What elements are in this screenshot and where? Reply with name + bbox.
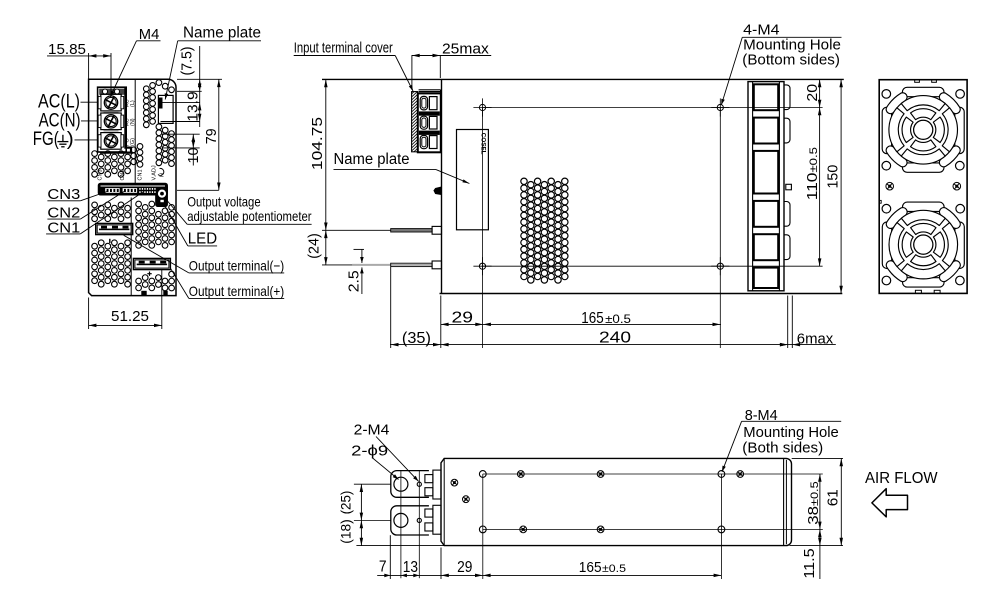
- leader potentiometer: [165, 198, 188, 225]
- terminal screw AC(L): [101, 94, 121, 111]
- svg-text:51.25: 51.25: [111, 309, 149, 325]
- svg-text:): ): [67, 129, 74, 150]
- svg-text:6max: 6max: [797, 331, 834, 347]
- svg-text:10: 10: [186, 148, 202, 164]
- svg-text:AC(N): AC(N): [39, 110, 81, 131]
- svg-text:(24): (24): [307, 233, 323, 259]
- svg-text:Output terminal(+): Output terminal(+): [189, 283, 284, 299]
- svg-text:110±0.5: 110±0.5: [805, 147, 821, 200]
- svg-text:(35): (35): [402, 330, 431, 347]
- end view top notches: [915, 80, 920, 83]
- hole row line top: [483, 107, 823, 109]
- svg-text:79: 79: [204, 128, 220, 144]
- leader Output terminal minus: [124, 235, 189, 273]
- fan guard outer straight slots: [903, 202, 945, 211]
- output terminal minus block: [96, 223, 133, 234]
- leader AC(N): [81, 120, 98, 122]
- leader M4: [110, 41, 136, 97]
- leader AC(L): [81, 101, 99, 103]
- side view mounting hole top-right: [717, 104, 723, 110]
- side view mounting hole bottom-left: [479, 263, 485, 269]
- svg-text:Mounting Hole: Mounting Hole: [743, 424, 839, 441]
- end view bottom tabs: [915, 290, 921, 293]
- svg-text:Name plate: Name plate: [183, 25, 261, 42]
- leader 4-M4: [721, 37, 742, 105]
- output stud upper (side): [391, 229, 432, 232]
- end view middle screws: [886, 182, 894, 190]
- leader CN1: [80, 192, 143, 234]
- front vent holes cluster E (right middle): [136, 201, 175, 248]
- svg-text:Output terminal(−): Output terminal(−): [189, 257, 284, 273]
- output stud lower (side): [352, 264, 432, 266]
- front vent holes cluster C (below CN strip left): [92, 202, 131, 222]
- side view left edge: [441, 79, 443, 293]
- potentiometer side view mark: [434, 187, 442, 195]
- leader Output terminal plus: [171, 268, 189, 298]
- svg-text:165: 165: [581, 310, 603, 327]
- fan guard outer straight slots: [902, 87, 944, 96]
- front panel vertical seam lower: [130, 198, 132, 296]
- leader FG: [75, 139, 99, 141]
- svg-text:(18): (18): [339, 519, 354, 543]
- svg-text:(G): (G): [130, 138, 136, 146]
- end view panel outline: [879, 80, 967, 294]
- bottom mounting holes 8-M4: [479, 471, 486, 478]
- LED lamp: [160, 199, 164, 202]
- side view bottom edge: [440, 293, 843, 295]
- front vent holes cluster A (upper right): [131, 80, 175, 167]
- side view top edge: [322, 78, 844, 80]
- svg-text:7: 7: [379, 559, 387, 576]
- svg-text:(25): (25): [339, 491, 354, 515]
- CN1 connector pins: [139, 188, 140, 190]
- front vent holes cluster F (bottom right): [136, 271, 175, 291]
- side view mounting hole bottom-right: [717, 263, 723, 269]
- hole row line bottom: [483, 265, 823, 267]
- svg-text:±0.5: ±0.5: [602, 563, 626, 575]
- end view left edge notch: [879, 200, 881, 203]
- bottom phillips screws: [517, 471, 524, 478]
- svg-text:V.ADJ: V.ADJ: [152, 165, 158, 180]
- tab 2 hole M4: [417, 518, 421, 522]
- svg-text:150: 150: [825, 165, 841, 189]
- front name plate: [158, 95, 173, 123]
- side name plate: [457, 130, 489, 230]
- bottom mounting tab 2: [391, 506, 429, 535]
- input terminal block TB1: [98, 87, 127, 152]
- svg-text:CN2: CN2: [120, 169, 126, 180]
- fan connector nub: [786, 184, 792, 190]
- hole column line right: [719, 108, 721, 349]
- leader 2-phi9: [372, 458, 399, 480]
- side view mounting hole top-left: [479, 104, 485, 110]
- svg-text:AIR FLOW: AIR FLOW: [865, 470, 938, 487]
- svg-text:61: 61: [825, 489, 841, 506]
- fan hub circle: [914, 120, 933, 139]
- front panel vertical seam upper: [134, 79, 136, 184]
- fan guard inner ring slots: [933, 117, 944, 142]
- fan guard middle ring slots: [942, 223, 957, 267]
- output voltage potentiometer: [157, 189, 166, 198]
- svg-text:29: 29: [452, 309, 474, 326]
- connector strip CN3 CN2 CN1: [98, 183, 167, 195]
- input terminal cover plates: [419, 89, 441, 91]
- air flow arrow: [872, 489, 908, 517]
- svg-text:(N): (N): [130, 118, 136, 126]
- fan guard middle ring slots: [942, 108, 957, 152]
- svg-text:COSEL: COSEL: [479, 133, 486, 155]
- connector strip pot housing: [156, 185, 168, 206]
- svg-text:(Bottom sides): (Bottom sides): [742, 51, 840, 68]
- side vent holes cluster: [521, 178, 568, 283]
- fan mounting corner holes: [882, 204, 891, 213]
- ground symbol: [62, 135, 64, 142]
- input terminal stack (side): [418, 93, 441, 152]
- fan assembly side view: [748, 82, 784, 291]
- svg-text:2-M4: 2-M4: [354, 421, 390, 438]
- svg-text:CN3: CN3: [98, 169, 104, 180]
- fan mounting corner holes: [882, 90, 891, 99]
- svg-text:Input terminal cover: Input terminal cover: [294, 39, 393, 56]
- svg-text:FG(: FG(: [33, 129, 60, 150]
- svg-text:29: 29: [457, 559, 472, 576]
- svg-text:LED: LED: [188, 231, 217, 248]
- fan guard inner ring slots: [933, 232, 944, 257]
- front vent holes cluster D (lower left): [92, 240, 131, 287]
- hole column line left: [482, 108, 484, 349]
- leader Name plate (front): [165, 41, 178, 100]
- svg-text:(7.5): (7.5): [180, 47, 196, 76]
- svg-text:Name plate: Name plate: [334, 151, 410, 168]
- tab 1 hole M4: [417, 482, 421, 486]
- leader Input terminal cover: [395, 56, 413, 92]
- svg-text:2.5: 2.5: [346, 270, 362, 292]
- bottom view right end seam: [783, 459, 785, 545]
- svg-text:adjustable potentiometer: adjustable potentiometer: [187, 208, 312, 224]
- tab 1 hole phi9: [394, 477, 408, 491]
- svg-text:Output voltage: Output voltage: [187, 194, 261, 210]
- bottom view body outline: [441, 458, 792, 545]
- svg-text:CN1: CN1: [138, 169, 144, 180]
- minus polarity mark: [109, 239, 111, 243]
- bottom view screw rows: [483, 473, 823, 475]
- terminal block bottom step: [100, 87, 131, 152]
- leader 8-M4: [722, 421, 742, 472]
- input terminal cover hatched block: [412, 92, 418, 152]
- svg-text:(Both sides): (Both sides): [742, 440, 823, 457]
- fan hub circle: [914, 235, 933, 254]
- output terminal plus block: [133, 258, 170, 269]
- leader CN3: [80, 192, 107, 201]
- CN3 connector slot: [105, 188, 120, 193]
- plus polarity mark: [147, 273, 151, 275]
- front view panel outline: [89, 79, 176, 295]
- CN2 connector slot: [123, 188, 138, 193]
- fan guard corner arc slots: [939, 146, 960, 167]
- leader 2-M4: [376, 437, 419, 482]
- svg-text:104.75: 104.75: [310, 117, 326, 170]
- svg-text:240: 240: [599, 329, 631, 346]
- fan guard corner arc slots: [939, 261, 960, 282]
- leader CN2: [80, 192, 124, 220]
- bottom mounting tab 1: [391, 471, 429, 498]
- svg-text:2-ϕ9: 2-ϕ9: [351, 442, 388, 459]
- bottom studs: [425, 475, 433, 483]
- fan corner bumps right: [784, 85, 790, 110]
- svg-text:13: 13: [403, 559, 418, 576]
- svg-text:165: 165: [579, 560, 602, 576]
- front vent holes cluster B (below terminal block): [92, 151, 131, 177]
- svg-text:±0.5: ±0.5: [605, 314, 631, 326]
- svg-text:11.5: 11.5: [802, 548, 818, 578]
- leader Name plate (side): [436, 170, 469, 184]
- leader LED: [164, 204, 188, 246]
- tab center lines: [354, 483, 391, 485]
- svg-text:(L): (L): [130, 100, 136, 107]
- front panel feet: [141, 291, 146, 296]
- tab 2 hole phi9: [394, 513, 408, 527]
